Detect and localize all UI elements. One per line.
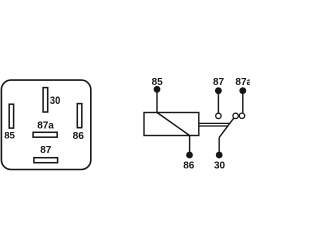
contact 87a (normally closed) [239,113,244,118]
svg-text:86: 86 [73,131,85,142]
wire 87a [242,91,244,113]
terminal 87a dot [239,87,246,94]
svg-text:30: 30 [214,160,226,171]
svg-text:87: 87 [213,77,225,88]
terminal 87 dot [215,87,222,94]
pin 87 slot [34,158,58,163]
terminal 85 dot [154,86,161,93]
pin 85 slot [9,104,13,128]
svg-text:87a: 87a [235,77,250,88]
svg-text:85: 85 [4,130,15,141]
svg-text:87: 87 [40,145,52,156]
terminal 30 dot [216,152,223,159]
wire 85 to coil [156,90,158,113]
svg-text:86: 86 [183,160,195,171]
mechanical link upper line [199,122,230,124]
coil diagonal [157,113,190,136]
switch arm [219,118,234,138]
pin 30 slot [43,88,48,112]
relay base outline [1,80,90,169]
contact 87 (normally open) [216,113,221,118]
svg-text:30: 30 [50,95,60,107]
svg-text:87a: 87a [37,120,54,131]
wire 30 [218,137,220,155]
pin 87a slot [33,132,57,137]
switch arm tip contact [233,113,238,118]
wire 86 from coil [189,136,191,156]
coil K1 [144,113,199,136]
pin 86 slot [77,104,82,128]
wire 87 [217,91,219,114]
mechanical link lower line [199,125,228,127]
terminal 86 dot [186,152,193,159]
